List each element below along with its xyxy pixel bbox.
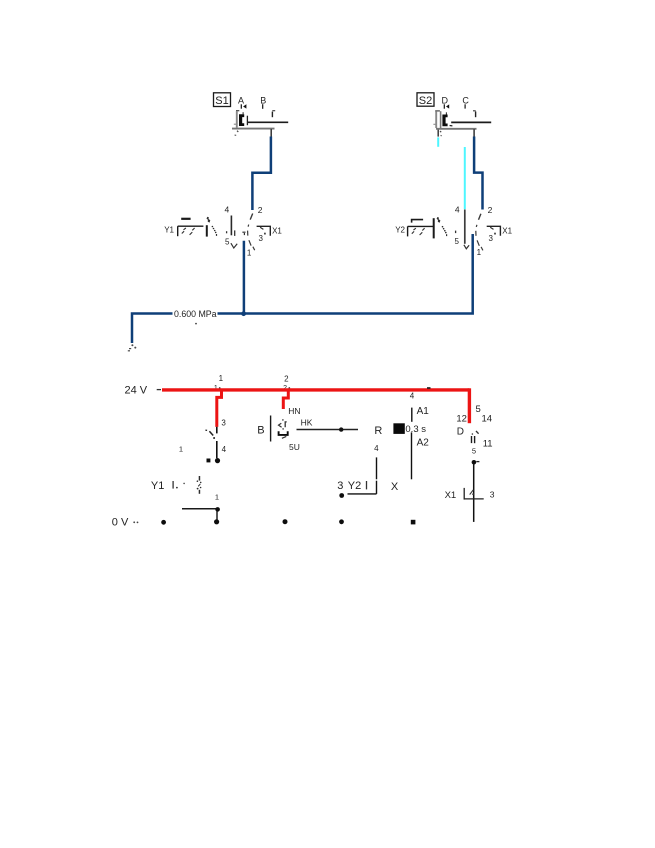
- svg-text:4: 4: [222, 445, 227, 454]
- junction dots branch 1: [207, 459, 211, 463]
- pressure label 0.600 MPa: [173, 308, 218, 324]
- svg-text:4: 4: [225, 205, 230, 215]
- wire cylinder S1 port stub: [270, 129, 272, 137]
- node D (ruler mark D of cylinder S2): [441, 95, 449, 108]
- svg-text:5: 5: [472, 447, 476, 456]
- svg-text:0 V: 0 V: [112, 517, 129, 529]
- air supply rail (dark blue) with riser to valve V2 port 1: [132, 234, 473, 343]
- pilot X1 line: [257, 226, 271, 236]
- svg-text:1: 1: [247, 249, 252, 258]
- mid dash: [455, 231, 457, 234]
- svg-text:A2: A2: [417, 437, 430, 448]
- exhaust mark V: [231, 243, 237, 248]
- svg-text:0.600 MPa: 0.600 MPa: [174, 309, 217, 319]
- svg-text:24 V: 24 V: [125, 384, 148, 396]
- contact X branch (to coil Y2): [337, 444, 399, 498]
- svg-text:HN: HN: [288, 406, 300, 416]
- timer X (coil with 0.3 s): [393, 406, 429, 479]
- ruler end ticks S1: [236, 110, 239, 112]
- svg-text:D: D: [457, 427, 464, 438]
- wire rail right end drop to contact D (red): [468, 388, 471, 423]
- pilot X1 line: [487, 226, 501, 236]
- svg-text:2: 2: [258, 205, 263, 215]
- node B (ruler mark B of cylinder S1): [260, 95, 266, 108]
- contact S1 (branch 1, limit switch): [205, 418, 226, 458]
- svg-text:Y2: Y2: [348, 480, 361, 492]
- contact D (changeover, terminals 12/14/11): [456, 404, 492, 522]
- svg-text:4: 4: [410, 392, 415, 401]
- svg-text:0.3 s: 0.3 s: [405, 424, 426, 435]
- contact X1 (bottom right): [445, 488, 495, 501]
- svg-text:A: A: [238, 95, 244, 105]
- svg-text:1: 1: [179, 445, 183, 454]
- wire cylinder S2 rod-side stub: [473, 129, 475, 137]
- svg-text:14: 14: [482, 413, 493, 424]
- svg-text:1: 1: [477, 248, 482, 257]
- svg-text:3: 3: [221, 418, 226, 427]
- wire valve V2 port 4 (cyan, unpressurized): [464, 147, 466, 209]
- wire S2 cylinder to valve port 2 (dark blue): [474, 137, 482, 210]
- node A (ruler mark A of cylinder S1): [238, 95, 246, 108]
- svg-text:5: 5: [476, 404, 481, 415]
- wire branch 2 drop (red): [283, 390, 288, 409]
- flow path fragments: [248, 214, 255, 251]
- exhaust mark V: [464, 245, 469, 249]
- pressure switch B (branch 2): [257, 406, 300, 452]
- node C (ruler mark C of cylinder S2): [462, 95, 469, 108]
- junction dot on air rail: [241, 311, 246, 316]
- 24V rail lead-in dash: [157, 389, 161, 391]
- wire S2 cylinder cap-side stub (cyan, unpressurized): [437, 137, 439, 146]
- svg-text:4: 4: [374, 444, 379, 453]
- flow path fragments: [476, 214, 483, 251]
- wire valve V1 port 1 down to air rail: [243, 241, 246, 314]
- wire branch 1 drop (red): [217, 390, 222, 427]
- svg-text:B: B: [260, 95, 266, 105]
- svg-text:1: 1: [219, 374, 224, 383]
- svg-text:X1: X1: [272, 227, 282, 236]
- wire HK (B to contact R): [297, 418, 359, 432]
- svg-text:11: 11: [483, 439, 493, 450]
- 0V rail connection dots: [161, 520, 166, 525]
- svg-text:2: 2: [488, 205, 493, 215]
- svg-text:2: 2: [284, 375, 289, 384]
- svg-text:B: B: [257, 425, 264, 437]
- dashed diagonal spring fragments: [437, 217, 448, 236]
- svg-text:C: C: [462, 95, 469, 105]
- cylinder S2 body: [433, 111, 491, 136]
- svg-text:HK: HK: [301, 418, 313, 428]
- svg-text:1: 1: [215, 493, 219, 502]
- svg-text:5U: 5U: [289, 442, 300, 452]
- svg-text:X1: X1: [445, 490, 457, 501]
- port 4 line: [230, 216, 232, 236]
- svg-text:S2: S2: [419, 95, 432, 107]
- svg-text:X: X: [391, 481, 399, 493]
- cylinder S2 label box: [417, 93, 434, 107]
- svg-text:X1: X1: [502, 227, 512, 236]
- svg-text:3: 3: [488, 234, 493, 243]
- cylinder S1 body: [232, 111, 288, 135]
- coil Y1 (solenoid valve coil): [151, 476, 220, 521]
- svg-text:Y2: Y2: [395, 225, 405, 234]
- wire S1 cylinder to valve port 2 (pressurized, dark blue): [252, 137, 271, 211]
- svg-text:5: 5: [454, 237, 459, 246]
- mid dash: [242, 231, 245, 233]
- 24V rail (energized, red): [162, 388, 469, 391]
- valve V2 (5/2-way, solenoid Y2 / pilot X1): [395, 205, 512, 258]
- svg-text:3: 3: [337, 480, 343, 492]
- svg-text:3: 3: [258, 234, 263, 243]
- svg-text:12: 12: [456, 413, 467, 424]
- svg-text:3: 3: [490, 490, 495, 500]
- svg-text:D: D: [441, 95, 448, 105]
- cylinder S1 label box: [214, 93, 231, 107]
- junction mark on rail: [427, 387, 431, 389]
- compressed air source fragments: [128, 344, 137, 351]
- svg-text:S1: S1: [215, 95, 228, 107]
- svg-text:Y1: Y1: [151, 480, 164, 492]
- wire S2 cylinder cap-side stub (black upper part): [437, 130, 439, 137]
- svg-text:Y1: Y1: [164, 226, 174, 235]
- svg-text:A1: A1: [417, 406, 430, 417]
- dashed diagonal spring fragments: [207, 217, 218, 236]
- valve V2 port 4 line (gray): [464, 210, 466, 244]
- svg-text:5: 5: [225, 237, 230, 246]
- 0V rail lead-in specks: [133, 521, 135, 523]
- valve V1 (5/2-way, solenoid Y1 / pilot X1): [164, 205, 282, 258]
- svg-text:4: 4: [455, 205, 460, 215]
- ELECTRICAL SECTION: [112, 374, 495, 529]
- PNEUMATIC SECTION: [128, 93, 513, 352]
- svg-text:R: R: [374, 425, 382, 437]
- ruler end ticks S2: [435, 110, 440, 112]
